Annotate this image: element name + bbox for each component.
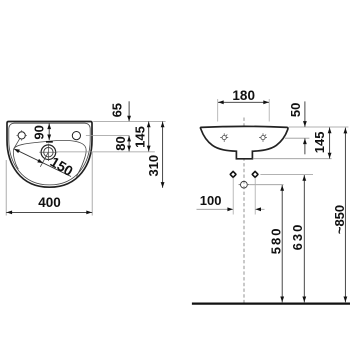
faucet cross right — [259, 133, 267, 142]
svg-text:145: 145 — [132, 126, 147, 148]
dimension 580 — [281, 185, 283, 302]
svg-text:~850: ~850 — [332, 205, 347, 234]
basin outer outline — [7, 122, 92, 188]
svg-text:580: 580 — [268, 227, 283, 255]
dimension 145 left view — [148, 122, 150, 152]
siphon circle — [241, 181, 248, 188]
svg-text:145: 145 — [312, 132, 327, 154]
svg-text:180: 180 — [232, 88, 255, 103]
dimension 65 — [128, 101, 130, 121]
dimension 145 front — [329, 127, 331, 158]
svg-text:90: 90 — [32, 125, 47, 139]
dimension 310 — [162, 122, 164, 188]
svg-text:50: 50 — [288, 103, 303, 117]
bowl left edge — [13, 149, 18, 170]
svg-text:310: 310 — [146, 155, 161, 177]
svg-text:400: 400 — [38, 195, 61, 210]
floor line — [192, 302, 350, 304]
extension line top edge right — [93, 120, 165, 122]
front outline — [200, 126, 287, 158]
extension line hole level — [86, 135, 129, 137]
svg-text:65: 65 — [109, 103, 124, 117]
svg-text:630: 630 — [290, 223, 305, 251]
tap hole leader — [14, 139, 20, 148]
svg-text:80: 80 — [113, 136, 128, 150]
tap hole left — [18, 132, 25, 139]
extension line drain level — [56, 151, 155, 153]
extension siphon level — [249, 184, 283, 186]
tick hole level — [285, 137, 309, 139]
dimension 80 — [128, 136, 130, 152]
dimension 100 — [232, 178, 234, 215]
extension fixing level — [260, 173, 313, 175]
svg-text:100: 100 — [200, 193, 222, 208]
wall fixing hole right — [252, 170, 258, 178]
extension top edge right — [289, 126, 349, 128]
dimension ~850 — [344, 128, 346, 303]
bowl deck edge — [14, 140, 87, 176]
faucet cross left — [220, 133, 228, 142]
dimension 180 — [217, 99, 219, 122]
tap hole right — [72, 132, 80, 140]
dimension 150 — [14, 149, 71, 177]
drain — [41, 145, 56, 160]
dimension 90 — [48, 123, 50, 140]
dimension 630 — [303, 175, 305, 302]
basin inner rim line — [9, 123, 90, 185]
center line — [243, 118, 245, 303]
dimension 50 — [304, 101, 306, 126]
wall fixing hole left — [230, 170, 236, 178]
extension stub bottom — [253, 158, 332, 160]
dimension 400 — [5, 160, 7, 216]
